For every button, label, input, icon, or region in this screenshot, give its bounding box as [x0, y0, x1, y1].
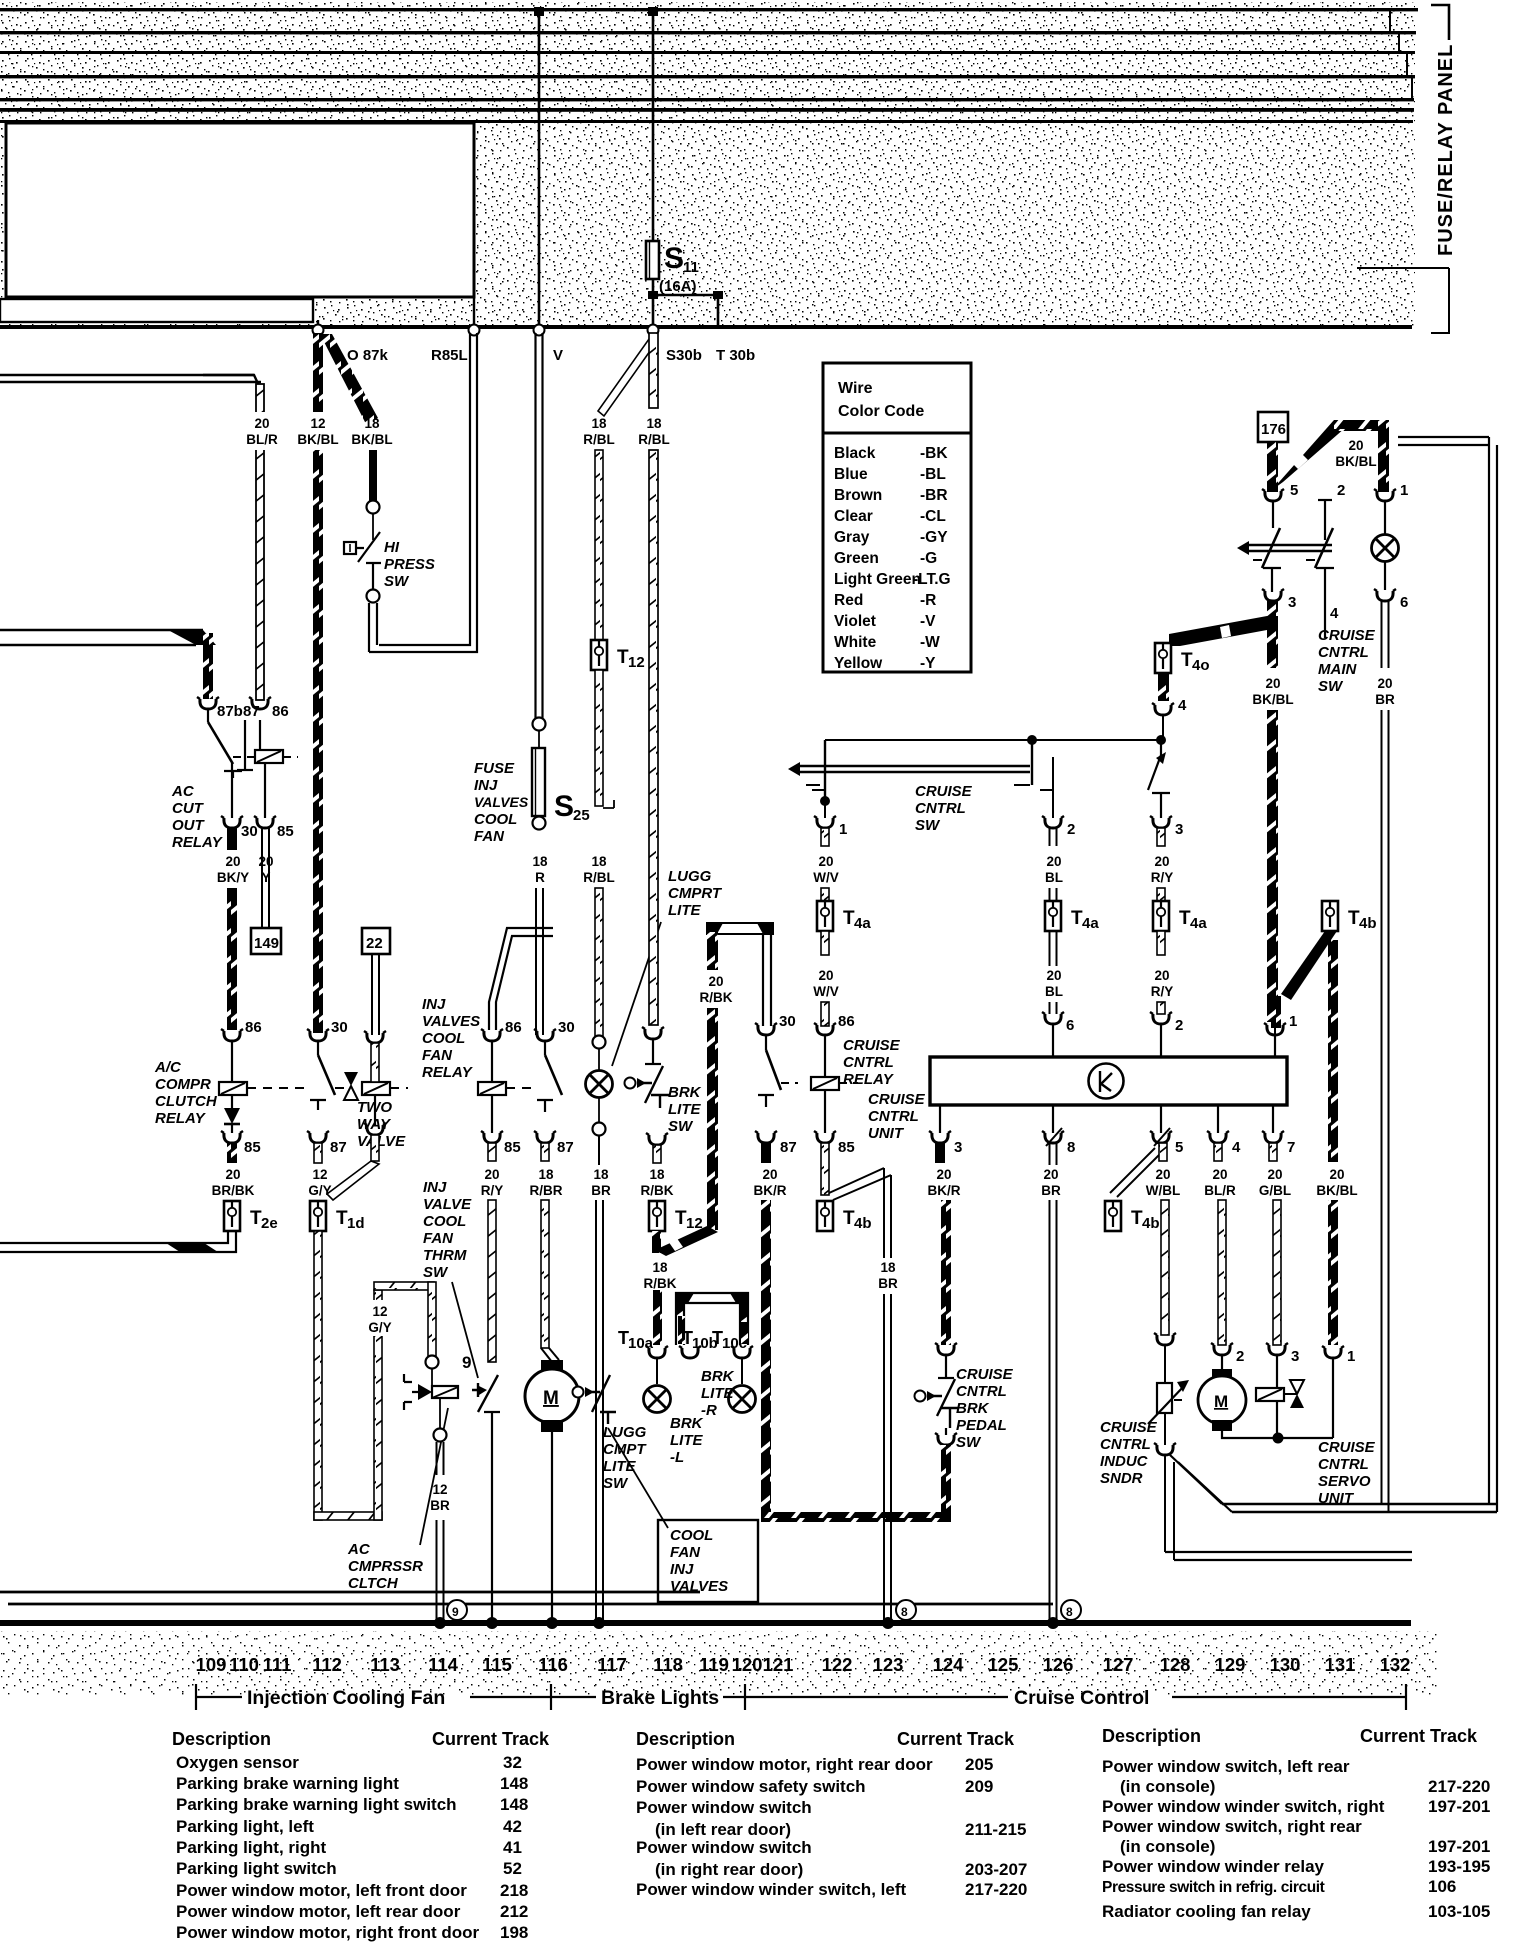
connector circle above lamp — [593, 1036, 606, 1049]
connector circle below lamp — [593, 1123, 606, 1136]
svg-text:85: 85 — [838, 1139, 855, 1156]
svg-text:209: 209 — [965, 1777, 993, 1796]
svg-text:A/C: A/C — [154, 1059, 182, 1076]
wire 20 BL/R horizontal feed — [0, 375, 261, 382]
svg-text:S: S — [554, 790, 574, 823]
svg-text:Power window winder switch, ri: Power window winder switch, right — [1102, 1797, 1385, 1816]
connector T4b #2 — [1105, 1201, 1121, 1231]
svg-text:(16A): (16A) — [659, 278, 697, 295]
svg-text:OUT: OUT — [172, 817, 206, 834]
bus bar 6 — [0, 108, 1414, 112]
svg-text:203-207: 203-207 — [965, 1860, 1027, 1879]
wire 20 G/BL hatched — [1273, 1200, 1281, 1345]
svg-text:18: 18 — [532, 854, 548, 869]
svg-text:Power window motor, right rear: Power window motor, right rear door — [636, 1755, 933, 1774]
svg-text:S: S — [664, 242, 684, 275]
svg-text:SW: SW — [1318, 678, 1344, 695]
connector T4a #2 — [1045, 901, 1061, 931]
svg-text:Description: Description — [172, 1729, 271, 1749]
svg-text:Brown: Brown — [834, 487, 882, 504]
induc sndr top cup — [1154, 1333, 1176, 1345]
svg-text:20: 20 — [225, 854, 240, 869]
wire from T2e to left — [0, 1231, 236, 1252]
cup 3 main sw — [1262, 589, 1284, 601]
ground symbol 9 — [447, 1600, 467, 1620]
wire 87b feed horizontal — [0, 630, 203, 645]
svg-text:CRUISE: CRUISE — [956, 1366, 1014, 1383]
svg-text:BK/R: BK/R — [928, 1183, 961, 1198]
svg-text:R/BL: R/BL — [638, 432, 670, 447]
svg-text:(in right rear door): (in right rear door) — [655, 1860, 803, 1879]
svg-text:BRK: BRK — [670, 1415, 704, 1432]
svg-text:FAN: FAN — [670, 1544, 701, 1561]
svg-text:4a: 4a — [854, 915, 871, 932]
wire 18 R/BL #2 wide hatched — [649, 333, 658, 408]
wire 20 Y double — [262, 828, 269, 930]
svg-text:Current Track: Current Track — [897, 1729, 1015, 1749]
cup 86 inj relay — [481, 1029, 503, 1041]
svg-text:87: 87 — [330, 1139, 347, 1156]
svg-text:125: 125 — [988, 1654, 1019, 1675]
legend box — [823, 363, 971, 672]
servo feed diagonals — [1170, 1455, 1232, 1512]
svg-text:20: 20 — [225, 1167, 240, 1182]
cup 30 inj relay — [534, 1029, 556, 1041]
svg-text:CLTCH: CLTCH — [348, 1575, 399, 1592]
svg-text:Parking brake warning light: Parking brake warning light — [176, 1774, 399, 1793]
cup 6 — [1042, 1012, 1064, 1024]
svg-text:85: 85 — [504, 1139, 521, 1156]
lamp cruise main sw — [1384, 501, 1386, 534]
svg-text:87: 87 — [243, 703, 260, 720]
svg-text:Current Track: Current Track — [432, 1729, 550, 1749]
svg-text:4b: 4b — [854, 1215, 872, 1232]
svg-text:W/V: W/V — [813, 984, 839, 999]
wire V double vertical — [536, 333, 543, 718]
svg-text:18: 18 — [591, 854, 607, 869]
svg-text:20: 20 — [1155, 1167, 1170, 1182]
svg-text:18: 18 — [649, 1167, 665, 1182]
svg-text:Parking light, right: Parking light, right — [176, 1838, 327, 1857]
connector circle below S25 — [533, 817, 546, 830]
cup 30 — [221, 816, 243, 828]
svg-text:CMPRSSR: CMPRSSR — [348, 1558, 423, 1575]
wire 20 R/Y stub — [488, 1143, 496, 1161]
cup 1 unit top — [1264, 1023, 1286, 1035]
svg-text:Power window switch, left rear: Power window switch, left rear — [1102, 1757, 1350, 1776]
svg-text:VALVES: VALVES — [422, 1013, 480, 1030]
svg-text:Oxygen sensor: Oxygen sensor — [176, 1753, 299, 1772]
svg-text:20: 20 — [1043, 1167, 1058, 1182]
svg-text:121: 121 — [763, 1654, 794, 1675]
col4 tick — [1324, 612, 1326, 638]
CRUISE CNTRL BRK PEDAL SW — [945, 1355, 947, 1378]
cup 85 inj relay — [481, 1131, 503, 1143]
wire below T12 striped stub — [652, 1231, 661, 1253]
section bracket line — [196, 1684, 1406, 1710]
bottom stipple band — [0, 1631, 1437, 1695]
svg-text:BR: BR — [591, 1183, 611, 1198]
svg-text:52: 52 — [503, 1859, 522, 1878]
two way valve lower cup — [374, 1095, 376, 1125]
cup two way valve — [364, 1031, 386, 1043]
lamp BRK LITE -L — [656, 1358, 658, 1384]
lamp BRK LITE -R — [741, 1358, 743, 1384]
svg-text:-Y: -Y — [920, 655, 936, 672]
svg-text:123: 123 — [873, 1654, 904, 1675]
wire 20 R/Y hatched — [488, 1200, 496, 1362]
bus bar 4 — [0, 75, 1415, 78]
svg-text:20: 20 — [762, 1167, 777, 1182]
svg-text:20: 20 — [1046, 968, 1061, 983]
svg-text:2: 2 — [1337, 482, 1345, 499]
cup 87 inj relay — [534, 1131, 556, 1143]
wire 20 G/BL stub — [1269, 1143, 1277, 1161]
wire 12 BK/BL thick striped — [313, 333, 323, 1033]
wire from induc to bottom lines — [1164, 1455, 1166, 1552]
svg-text:1: 1 — [1400, 482, 1408, 499]
leader to cool fan text — [608, 1428, 668, 1528]
svg-text:1: 1 — [839, 821, 847, 838]
svg-text:RELAY: RELAY — [843, 1071, 895, 1088]
svg-text:111: 111 — [263, 1654, 292, 1675]
wire 3 stub solid — [935, 1143, 945, 1163]
svg-text:1: 1 — [1347, 1348, 1355, 1365]
cruise relay 85 stub hatched — [821, 1143, 829, 1195]
induc sndr bottom cup — [1154, 1443, 1176, 1455]
wire 20 BL/R vertical hatched — [256, 384, 264, 700]
svg-text:86: 86 — [245, 1019, 262, 1036]
svg-text:114: 114 — [428, 1654, 459, 1675]
wire 20 W/BL stub — [1159, 1143, 1167, 1161]
right border pair — [1489, 437, 1497, 1512]
svg-text:CNTRL: CNTRL — [1318, 1456, 1369, 1473]
svg-text:Power window switch: Power window switch — [636, 1798, 812, 1817]
svg-text:30: 30 — [331, 1019, 348, 1036]
svg-text:CUT: CUT — [172, 800, 205, 817]
cup 2 cruise sw — [1042, 816, 1064, 828]
leader AC cmprssr — [420, 1408, 448, 1545]
svg-text:85: 85 — [277, 823, 294, 840]
svg-text:85: 85 — [244, 1139, 261, 1156]
rail junction dots — [434, 1617, 446, 1629]
svg-text:86: 86 — [838, 1013, 855, 1030]
svg-text:LITE: LITE — [670, 1432, 703, 1449]
svg-text:-G: -G — [920, 550, 937, 567]
wire 18 BR double to ground — [596, 1200, 603, 1624]
svg-text:86: 86 — [272, 703, 289, 720]
svg-text:LUGG: LUGG — [603, 1424, 647, 1441]
svg-text:1: 1 — [1289, 1013, 1297, 1030]
svg-text:4a: 4a — [1190, 915, 1207, 932]
Z jog striped — [655, 1226, 718, 1256]
white cutout box in panel — [6, 123, 474, 297]
svg-text:106: 106 — [1428, 1877, 1456, 1896]
bus bar 1 — [0, 8, 1418, 11]
U loop bottom striped — [761, 1512, 951, 1522]
cruise relay 86 cup — [814, 1023, 836, 1035]
svg-text:Black: Black — [834, 445, 876, 462]
ribbon left leg striped upper — [707, 932, 718, 970]
ground symbol 8b — [1061, 1600, 1081, 1620]
svg-text:103-105: 103-105 — [1428, 1902, 1490, 1921]
table column 2 — [636, 1755, 1027, 1899]
svg-text:Color Code: Color Code — [838, 403, 924, 420]
wire 18 R/BL hatched lower — [595, 888, 603, 1036]
svg-text:INJ: INJ — [474, 777, 498, 794]
svg-text:Power window motor, left front: Power window motor, left front door — [176, 1881, 467, 1900]
svg-text:O 87k: O 87k — [347, 347, 389, 364]
wire 18 R/BL hatched mid — [595, 670, 603, 806]
svg-text:Injection Cooling Fan: Injection Cooling Fan — [247, 1687, 445, 1709]
svg-text:S30b: S30b — [666, 347, 702, 364]
unit bottom cup 7 — [1262, 1131, 1284, 1143]
svg-text:20: 20 — [1377, 676, 1392, 691]
svg-text:COOL: COOL — [670, 1527, 713, 1544]
svg-text:LITE: LITE — [668, 1101, 701, 1118]
thermo switch symbol — [472, 1375, 498, 1412]
svg-text:CRUISE: CRUISE — [1100, 1419, 1158, 1436]
svg-text:BL/R: BL/R — [246, 432, 278, 447]
terminal box 176 — [1258, 412, 1288, 442]
svg-text:R: R — [535, 870, 545, 885]
connector circle lower — [367, 590, 380, 603]
striped wire below 176 — [1267, 442, 1278, 492]
svg-text:218: 218 — [500, 1881, 528, 1900]
svg-text:3: 3 — [1175, 821, 1183, 838]
svg-text:T 30b: T 30b — [716, 347, 755, 364]
svg-text:BL/R: BL/R — [1204, 1183, 1236, 1198]
cup 4 — [1152, 703, 1174, 715]
svg-text:30: 30 — [779, 1013, 796, 1030]
col2 wire — [1052, 757, 1054, 818]
svg-text:126: 126 — [1043, 1654, 1074, 1675]
svg-text:-GY: -GY — [920, 529, 948, 546]
svg-text:FAN: FAN — [422, 1047, 453, 1064]
svg-text:217-220: 217-220 — [965, 1880, 1027, 1899]
cruise relay 87 cup — [755, 1131, 777, 1143]
svg-text:Power window safety switch: Power window safety switch — [636, 1777, 866, 1796]
inj relay coil — [491, 1041, 493, 1082]
lamp lugg cmprt lite — [586, 1071, 613, 1098]
svg-text:SNDR: SNDR — [1100, 1470, 1143, 1487]
cup 2 unit top — [1150, 1012, 1172, 1024]
svg-text:AC: AC — [171, 783, 195, 800]
top ribbon bar 3D — [707, 923, 773, 934]
unit bottom cup 8 slashed — [1042, 1131, 1064, 1143]
svg-text:Blue: Blue — [834, 466, 868, 483]
wire 20 BK/Y thick striped — [227, 888, 237, 1030]
S11 output link to T30b — [653, 295, 718, 327]
svg-text:130: 130 — [1270, 1654, 1301, 1675]
svg-text:-W: -W — [920, 634, 940, 651]
svg-text:18: 18 — [646, 416, 662, 431]
wire 18 R/BL #1 diagonal from S30b — [598, 339, 655, 416]
svg-text:109: 109 — [196, 1654, 227, 1675]
svg-text:113: 113 — [370, 1654, 400, 1675]
svg-text:20: 20 — [708, 974, 723, 989]
svg-text:Power window motor, right fron: Power window motor, right front door — [176, 1923, 480, 1942]
svg-text:R/Y: R/Y — [481, 1183, 504, 1198]
box around COOL FAN INJ VALVES — [658, 1520, 758, 1602]
AC compressor clutch coil — [404, 1374, 418, 1410]
cool fan motor — [541, 1360, 563, 1372]
bus bar 7 — [0, 120, 1413, 123]
svg-text:RELAY: RELAY — [172, 834, 224, 851]
svg-text:RELAY: RELAY — [155, 1110, 207, 1127]
thin rail upper — [0, 1592, 1053, 1604]
svg-text:117: 117 — [597, 1654, 627, 1675]
panel vertical wire S — [652, 10, 655, 327]
connector circle above S25 — [533, 718, 546, 731]
svg-text:W/V: W/V — [813, 870, 839, 885]
svg-text:Clear: Clear — [834, 508, 873, 525]
panel vertical wire V — [538, 10, 541, 327]
svg-text:2: 2 — [1236, 1348, 1244, 1365]
ribbon right leg double to cruise 30 — [763, 934, 771, 1026]
striped wire down from junction — [1267, 628, 1278, 668]
svg-text:20: 20 — [258, 854, 273, 869]
AC cut out relay switch — [207, 709, 209, 722]
servo horizontal pair — [1222, 1504, 1497, 1512]
svg-text:Power window winder relay: Power window winder relay — [1102, 1857, 1325, 1876]
track numbers — [196, 1654, 1411, 1675]
cup 5 main sw — [1262, 489, 1284, 501]
cruise relay 30 cup — [755, 1023, 777, 1035]
svg-text:20: 20 — [1046, 854, 1061, 869]
svg-text:CNTRL: CNTRL — [843, 1054, 894, 1071]
svg-text:18: 18 — [538, 1167, 554, 1182]
svg-text:115: 115 — [482, 1654, 512, 1675]
svg-text:W/BL: W/BL — [1146, 1183, 1181, 1198]
svg-text:41: 41 — [503, 1838, 522, 1857]
link to servo terminal 1 — [1278, 1358, 1333, 1438]
lower 3D box lugg lite — [676, 1293, 748, 1345]
svg-text:132: 132 — [1380, 1654, 1411, 1675]
svg-text:4b: 4b — [1142, 1215, 1160, 1232]
label 18 BR — [868, 1258, 908, 1294]
svg-text:127: 127 — [1103, 1654, 1134, 1675]
panel terminal circle O87k — [313, 325, 324, 336]
table column 1 — [176, 1753, 528, 1942]
wire from 22 double — [372, 954, 379, 1035]
wire 20 BK/R striped down to U loop — [761, 1200, 771, 1522]
svg-text:20: 20 — [1154, 854, 1169, 869]
connector T1d — [310, 1201, 326, 1231]
svg-text:Description: Description — [1102, 1726, 1201, 1746]
svg-text:112: 112 — [312, 1654, 342, 1675]
svg-text:BRK: BRK — [956, 1400, 990, 1417]
svg-text:25: 25 — [573, 807, 590, 824]
svg-text:8: 8 — [1067, 1139, 1075, 1156]
svg-text:32: 32 — [503, 1753, 522, 1772]
svg-text:BK/BL: BK/BL — [1335, 454, 1376, 469]
svg-text:SW: SW — [915, 817, 941, 834]
svg-text:124: 124 — [933, 1654, 965, 1675]
svg-text:BR: BR — [1375, 692, 1395, 707]
svg-text:116: 116 — [538, 1654, 568, 1675]
svg-text:R/BL: R/BL — [583, 870, 615, 885]
svg-text:COOL: COOL — [422, 1030, 465, 1047]
cruise relay 85 cup — [814, 1131, 836, 1143]
svg-text:Green: Green — [834, 550, 879, 567]
zigzag 20 BK/BL to terminal 1 — [1272, 420, 1345, 490]
panel terminal circle S30b — [648, 325, 659, 336]
svg-text:G/Y: G/Y — [368, 1320, 391, 1335]
svg-text:CRUISE: CRUISE — [843, 1037, 901, 1054]
cruise relay coil — [824, 1035, 826, 1077]
svg-text:5: 5 — [1290, 482, 1298, 499]
A/C compr clutch switch — [317, 1041, 319, 1055]
svg-text:4o: 4o — [1192, 657, 1210, 674]
svg-text:-BK: -BK — [920, 445, 948, 462]
svg-text:118: 118 — [653, 1654, 683, 1675]
Z-link wire to 86 — [489, 928, 553, 1030]
cup brake light switch bottom — [646, 1133, 668, 1145]
svg-text:R/Y: R/Y — [1151, 984, 1174, 999]
svg-text:Pressure switch in refrig. cir: Pressure switch in refrig. circuit — [1102, 1879, 1325, 1896]
wire 12 BR double to ground — [437, 1442, 444, 1624]
svg-text:SW: SW — [384, 573, 410, 590]
label 20 BL/R — [244, 412, 282, 450]
panel terminal circle R85L — [469, 325, 480, 336]
white strip lower-left of panel — [0, 299, 313, 322]
svg-text:VALVE: VALVE — [423, 1196, 472, 1213]
svg-text:Power window motor, left rear: Power window motor, left rear door — [176, 1902, 461, 1921]
svg-text:20: 20 — [818, 854, 833, 869]
two way valve wire upper — [371, 1043, 379, 1082]
svg-text:1d: 1d — [347, 1215, 365, 1232]
striped T from cup3 — [1267, 601, 1278, 628]
svg-text:-BR: -BR — [920, 487, 948, 504]
svg-text:5: 5 — [1175, 1139, 1183, 1156]
svg-text:INDUC: INDUC — [1100, 1453, 1149, 1470]
svg-text:BRK: BRK — [668, 1084, 702, 1101]
wire 12 G/Y U loop — [314, 1231, 322, 1520]
ground rail thick — [0, 1620, 1411, 1626]
svg-text:-LT.G: -LT.G — [913, 571, 951, 588]
cruise relay switch — [765, 1035, 767, 1050]
svg-text:3: 3 — [1291, 1348, 1299, 1365]
cup 85 AC compr — [221, 1131, 243, 1143]
fuse S25 — [532, 748, 545, 816]
svg-text:3: 3 — [954, 1139, 962, 1156]
svg-text:4: 4 — [1330, 605, 1339, 622]
inj relay switch — [544, 1041, 546, 1055]
svg-text:R/BK: R/BK — [644, 1276, 677, 1291]
svg-text:22: 22 — [366, 935, 383, 952]
circle below clutch coil — [439, 1398, 441, 1428]
pedal sw bottom cup — [935, 1433, 957, 1445]
svg-text:BK/Y: BK/Y — [217, 870, 249, 885]
T4b3 zigzag to unit cup1 — [1281, 931, 1337, 1000]
bottom right horizontals — [1165, 1552, 1412, 1560]
svg-text:VALVE: VALVE — [357, 1133, 406, 1150]
panel bottom edge — [0, 325, 1412, 329]
svg-text:M: M — [543, 1388, 559, 1409]
svg-text:20: 20 — [936, 1167, 951, 1182]
svg-text:Power window switch, right re: Power window switch, right rear — [1102, 1817, 1362, 1836]
svg-text:20: 20 — [1348, 438, 1363, 453]
svg-text:198: 198 — [500, 1923, 528, 1942]
brake light switch — [652, 1039, 654, 1064]
junction dot top V — [534, 7, 544, 16]
svg-text:148: 148 — [500, 1774, 528, 1793]
svg-text:149: 149 — [254, 935, 279, 952]
svg-text:9: 9 — [452, 1605, 459, 1619]
svg-text:BR/BK: BR/BK — [212, 1183, 255, 1198]
svg-text:INJ: INJ — [423, 1179, 447, 1196]
